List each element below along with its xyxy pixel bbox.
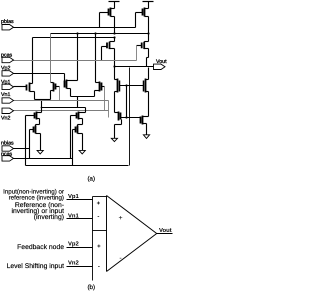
transistor M-top-right (PMOS current source, right branch)	[136, 8, 149, 33]
svg-text:-: -	[119, 255, 122, 262]
description text	[3, 189, 64, 270]
op-amp input box	[93, 197, 107, 281]
svg-text:Vp2: Vp2	[68, 241, 80, 248]
ground right stack	[79, 150, 85, 154]
pbias rail	[13, 27, 136, 29]
Vp1 wire	[14, 86, 27, 88]
pin Vp2	[2, 71, 14, 76]
pin pcas	[2, 57, 14, 62]
svg-text:+: +	[97, 244, 101, 250]
pin ncas	[2, 156, 14, 161]
svg-text:Vn2: Vn2	[1, 116, 10, 122]
svg-text:Vout: Vout	[159, 227, 172, 234]
tail rail to sink stacks	[42, 107, 86, 109]
pin Vn1	[2, 98, 14, 103]
svg-text:reference (inverting): reference (inverting)	[9, 194, 64, 201]
svg-text:Vp1: Vp1	[68, 193, 80, 200]
transistor M-top-left (PMOS current source, left branch)	[100, 8, 115, 34]
nbias riser right (continues to return wire)	[72, 130, 74, 166]
svg-text:ncas: ncas	[1, 152, 13, 158]
Vout wire (a)	[114, 66, 154, 68]
bridge stem down to lower mirror gates	[126, 86, 128, 118]
ncas wire	[13, 158, 73, 160]
svg-text:Level Shifting input: Level Shifting input	[7, 263, 65, 270]
svg-text:pcas: pcas	[1, 53, 13, 59]
mirror transistor mid-right	[144, 68, 149, 117]
mirror transistor mid-left	[115, 67, 120, 113]
pin Vout (a)	[154, 64, 166, 69]
tail pair 1	[35, 100, 51, 108]
transistor M-casc-left (PMOS cascode, left branch)	[102, 38, 115, 67]
Vn2 wire (gray)	[13, 110, 109, 112]
svg-text:(inverting): (inverting)	[34, 214, 64, 221]
svg-text:-: -	[98, 264, 100, 270]
pin pbias	[2, 25, 14, 30]
junction on rail y33 at right branch column	[147, 32, 149, 34]
junction on rail y37 at left branch column	[113, 36, 115, 38]
wire Vn1 input (b)	[67, 218, 93, 220]
svg-text:Vp2: Vp2	[1, 65, 10, 71]
VDD bar left branch	[109, 2, 120, 9]
svg-text:Vp1: Vp1	[1, 80, 10, 86]
pin nbias	[2, 146, 14, 151]
right NMOS stack bottom (nbias)	[73, 125, 83, 151]
Vp2 wire	[13, 73, 65, 75]
gray link to lower mirror gate	[108, 101, 110, 118]
svg-text:Vn1: Vn1	[1, 92, 10, 98]
transistor M-casc-right (PMOS cascode, right branch)	[137, 34, 149, 67]
nbias wire	[13, 148, 30, 150]
wire Vp1 input (b)	[67, 199, 93, 201]
bottom return wire	[26, 165, 129, 167]
Vn1 drain riser to rail	[50, 34, 52, 83]
svg-text:Vn2: Vn2	[68, 259, 80, 266]
junction mirror gate bridge	[125, 84, 127, 86]
wire Vn2 input (b)	[67, 266, 93, 268]
right NMOS stack cascode (ncas)	[71, 108, 86, 125]
svg-text:+: +	[118, 215, 122, 222]
gate bridge (mirror gates)	[120, 85, 144, 87]
Vn1 wire (gray)	[13, 87, 109, 101]
transistor M-pair2R (input pair 2 right, mirrored)	[95, 34, 105, 97]
svg-text:nbias: nbias	[1, 141, 14, 147]
left NMOS stack cascode (ncas)	[26, 108, 42, 125]
svg-text:+: +	[97, 201, 101, 207]
pin Vp1	[2, 84, 14, 89]
junction on rail y33 at pair2-right gate drop	[94, 32, 96, 34]
lower NMOS left (mirror)	[115, 112, 141, 139]
center column down to return wire	[129, 68, 131, 166]
svg-text:Feedback node: Feedback node	[17, 244, 64, 251]
svg-text:(a): (a)	[88, 175, 96, 182]
ground left stack	[37, 150, 43, 154]
lower NMOS right	[141, 116, 149, 135]
pin Vn2	[2, 108, 14, 113]
ncas riser right	[70, 116, 72, 159]
transistor M-Vp1 (input pair 1 left)	[27, 38, 35, 100]
VDD bar right branch	[143, 2, 154, 9]
svg-text:-: -	[97, 214, 99, 220]
svg-text:Vout: Vout	[156, 59, 167, 65]
pcas rail (gray)	[13, 46, 137, 61]
junction on rail y33 at left branch column	[113, 32, 115, 34]
node rail y33	[51, 33, 149, 35]
tail pair 2	[71, 97, 95, 108]
Vn2 riser (gray)	[104, 87, 106, 111]
nbias riser left	[29, 130, 31, 159]
ground lower-right	[143, 135, 149, 139]
left NMOS stack bottom (nbias)	[30, 125, 41, 151]
svg-text:pbias: pbias	[1, 19, 14, 25]
junction lower mirror gate wire	[125, 116, 127, 118]
junction tail rail at pair1 stem	[41, 107, 43, 109]
op-amp triangle	[107, 196, 157, 272]
ground lower-left	[111, 138, 117, 141]
wire Vp2 input (b)	[67, 247, 93, 249]
ncas riser left (continues to return wire)	[25, 116, 27, 166]
svg-text:(b): (b)	[88, 284, 96, 291]
junction node Vout at left mirror column	[113, 65, 115, 67]
output wire (b)	[157, 233, 173, 235]
transistor M-Vn1 (input pair 1 right, mirrored)	[51, 83, 60, 100]
transistor M-Vp2 (input pair 2 left)	[65, 34, 78, 97]
node rail y37.4	[33, 37, 115, 39]
junction on rail y33 at pair2-left drain	[76, 32, 78, 34]
